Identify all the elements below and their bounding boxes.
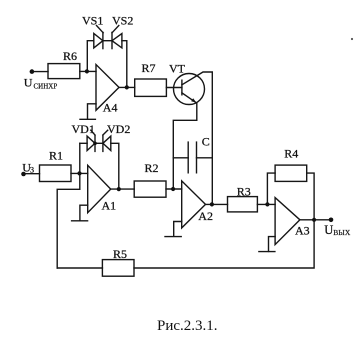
svg-text:VS1: VS1 [82, 14, 103, 28]
svg-text:A3: A3 [295, 224, 310, 238]
svg-text:VD1: VD1 [72, 122, 95, 136]
svg-text:U: U [24, 75, 33, 89]
svg-text:VS2: VS2 [112, 14, 133, 28]
svg-text:Рис.2.3.1.: Рис.2.3.1. [157, 318, 218, 334]
svg-text:U: U [324, 223, 333, 237]
svg-text:R4: R4 [284, 147, 298, 161]
svg-text:ВЫХ: ВЫХ [333, 228, 351, 237]
svg-text:A4: A4 [103, 101, 118, 115]
svg-text:VD2: VD2 [107, 122, 130, 136]
svg-text:R2: R2 [145, 161, 159, 175]
svg-text:3: 3 [30, 165, 35, 175]
svg-text:СИНХР: СИНХР [34, 82, 58, 90]
svg-text:C: C [202, 135, 210, 149]
svg-text:A1: A1 [102, 199, 117, 213]
svg-text:R6: R6 [63, 49, 77, 63]
svg-text:R5: R5 [113, 247, 127, 261]
svg-text:R1: R1 [49, 148, 63, 162]
svg-text:R7: R7 [142, 61, 156, 75]
svg-text:VT: VT [169, 62, 186, 76]
svg-text:A2: A2 [198, 209, 213, 223]
svg-text:R3: R3 [237, 184, 251, 198]
